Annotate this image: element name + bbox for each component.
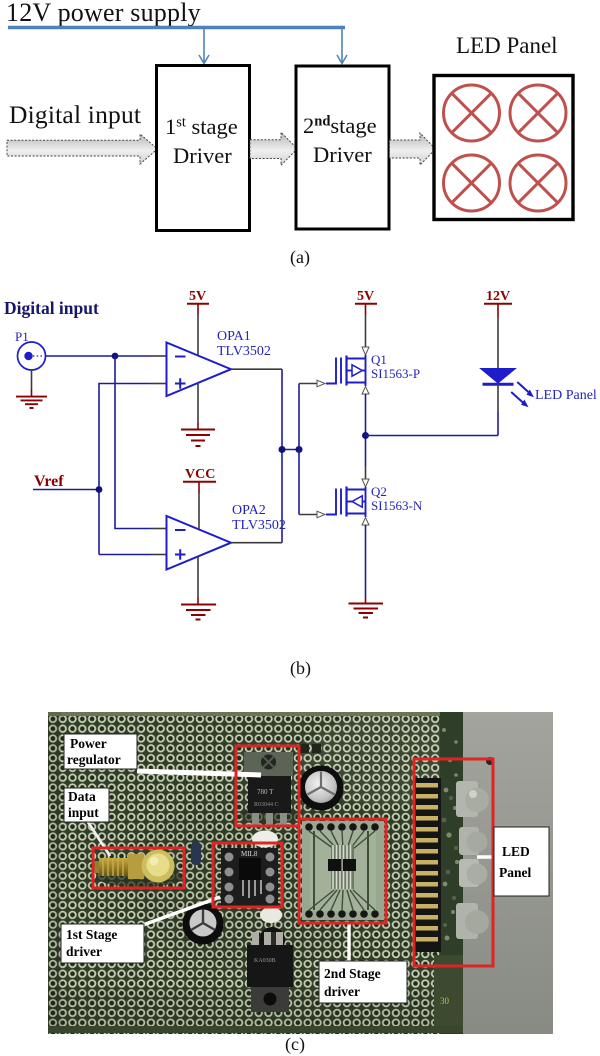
wire supply drop to 1st stage driver <box>203 29 205 63</box>
svg-text:KA030B: KA030B <box>254 958 276 964</box>
ground under P1 <box>16 370 47 408</box>
svg-text:Q2: Q2 <box>371 484 387 499</box>
svg-text:Digital input: Digital input <box>9 100 141 129</box>
leader line: 2nd stage driver <box>347 924 350 962</box>
svg-text:TLV3502: TLV3502 <box>232 518 286 533</box>
LED D2 <box>456 781 489 817</box>
svg-text:Power: Power <box>70 736 107 751</box>
op-amp OPA2 TLV3502 <box>167 503 286 570</box>
svg-text:regulator: regulator <box>67 752 121 767</box>
ground under Q2 <box>349 604 384 618</box>
svg-text:P1: P1 <box>15 329 29 344</box>
capacitor C2 (black, metal Y top) <box>183 904 224 945</box>
arrow digital input (gray block arrow) <box>7 134 158 164</box>
pin arrow gate Q2 <box>317 511 325 518</box>
solder pad above 1st stage DIP <box>252 831 278 848</box>
lamp symbol top-right <box>510 85 566 141</box>
label box: Data input <box>64 788 109 822</box>
svg-text:(a): (a) <box>290 247 310 268</box>
pin arrow drain Q1 <box>362 387 369 395</box>
ground under OPA1 <box>181 383 215 446</box>
svg-text:780 T: 780 T <box>257 788 274 796</box>
annotation box: data input connector <box>93 848 184 888</box>
label box: 2nd Stage driver <box>319 961 407 1003</box>
junction node OUT <box>362 432 369 439</box>
svg-text:MIL8: MIL8 <box>241 850 258 858</box>
svg-text:Panel: Panel <box>499 865 531 880</box>
svg-text:5V: 5V <box>189 289 206 304</box>
LED D5 <box>456 903 489 939</box>
wire node G vertical (OPA1 out to OPA2 out) <box>281 369 283 543</box>
svg-text:Driver: Driver <box>313 142 372 167</box>
transistor Q2 SI1563-N <box>326 487 366 518</box>
leader line: 1st stage driver <box>143 897 220 925</box>
svg-text:2nd Stage: 2nd Stage <box>324 966 381 981</box>
svg-text:1st Stage: 1st Stage <box>66 927 117 942</box>
pin arrow source Q1 <box>362 347 369 355</box>
junction node Vref <box>96 486 103 493</box>
power 5V (OPA1) <box>187 289 209 355</box>
power regulator U3 (7805) <box>240 752 300 825</box>
svg-text:driver: driver <box>66 944 102 959</box>
leader line: data input <box>88 822 110 856</box>
connector J2 LED panel header pins <box>414 778 441 952</box>
resistor R1 (small blue) <box>191 842 201 865</box>
annotation box: power regulator <box>236 746 299 826</box>
connector J1 data input (SMA) <box>92 850 184 888</box>
svg-text:Driver: Driver <box>173 143 232 168</box>
wire 12V supply bus (blue) <box>8 26 345 29</box>
pin arrow gate Q1 <box>317 380 325 387</box>
photo background PCB <box>48 712 553 1034</box>
wire LED cathode down to node OUT <box>497 384 499 412</box>
svg-text:Q1: Q1 <box>371 352 387 367</box>
svg-text:input: input <box>68 805 99 820</box>
svg-text:LED: LED <box>502 844 530 859</box>
gray photo background right <box>462 712 553 1034</box>
LED D3 <box>459 827 488 855</box>
svg-text:LED Panel: LED Panel <box>535 388 597 403</box>
solder pad below DIP <box>260 907 282 923</box>
board bottom edge <box>48 1026 462 1033</box>
label box: LED Panel <box>494 827 549 896</box>
wire node OUT to LED <box>366 435 499 437</box>
block 1st stage Driver <box>157 66 250 231</box>
svg-text:2ndstage: 2ndstage <box>303 113 377 138</box>
small jumper parts above 2nd stage <box>299 744 309 753</box>
LED light emission arrows <box>511 382 534 407</box>
annotation box: 1st stage driver <box>213 843 282 907</box>
lamp symbol bottom-right <box>510 155 566 211</box>
svg-text:SI1563-P: SI1563-P <box>371 366 420 381</box>
svg-text:LED Panel: LED Panel <box>456 33 558 58</box>
label box: Power regulator <box>64 734 137 769</box>
pin arrow source Q2 <box>362 518 369 526</box>
power VCC (OPA2) <box>183 467 216 529</box>
LED panel board edge strip <box>440 712 463 1034</box>
diode LED D1 <box>481 369 516 385</box>
power 12V (LED) <box>484 289 512 368</box>
leader line: power regulator <box>137 771 261 775</box>
IC U1 1st stage driver (8-pin DIP) <box>221 848 278 906</box>
wire node G to gate Q1 and gate Q2 <box>298 384 300 515</box>
mounting hole <box>486 757 494 765</box>
svg-text:OPA1: OPA1 <box>217 329 251 344</box>
ground under OPA2 <box>181 556 216 620</box>
svg-text:(b): (b) <box>290 658 311 679</box>
annotation box: 2nd stage driver <box>299 819 386 923</box>
lamp symbol top-left <box>444 85 500 141</box>
wire P1 to node IN <box>46 355 152 357</box>
capacitor C3 (small black) <box>259 927 285 953</box>
svg-text:VCC: VCC <box>185 467 215 482</box>
transistor Q1 SI1563-P <box>326 355 366 386</box>
svg-text:(c): (c) <box>285 1034 305 1055</box>
IC U2 2nd stage driver (bare die) <box>302 821 384 920</box>
svg-text:TLV3502: TLV3502 <box>217 344 271 359</box>
svg-text:5V: 5V <box>357 289 374 304</box>
junction node IN <box>112 353 119 360</box>
wire Q2 source to ground <box>365 525 367 597</box>
lamp symbol bottom-left <box>444 155 500 211</box>
wire node IN down to OPA2 inverting input <box>115 356 151 529</box>
pin arrow drain Q2 <box>362 479 369 487</box>
svg-text:1st stage: 1st stage <box>165 114 238 139</box>
svg-text:SI1563-N: SI1563-N <box>371 498 423 513</box>
svg-text:30: 30 <box>440 996 450 1006</box>
wire node G link <box>282 449 299 451</box>
junction node G2 <box>296 446 303 453</box>
svg-text:driver: driver <box>324 984 360 999</box>
wire supply drop to 2nd stage driver <box>341 29 343 63</box>
svg-text:Data: Data <box>68 789 96 804</box>
LED D4 <box>459 859 488 887</box>
wire Vref <box>33 489 99 491</box>
wire Vref rail to OPA2 non-inverting input <box>99 554 151 556</box>
capacitor C1 (electrolytic, silver top) <box>299 766 344 811</box>
svg-text:Vref: Vref <box>34 473 64 490</box>
label box: 1st Stage driver <box>61 924 144 963</box>
op-amp OPA1 TLV3502 <box>167 329 271 396</box>
annotation box: LED panel <box>414 759 493 966</box>
regulator U4 (bottom, TO-252) <box>247 932 293 1012</box>
arrow stage2 to LED panel (gray block arrow) <box>390 133 436 165</box>
wire Q1 drain to node OUT <box>365 394 367 466</box>
svg-text:12V: 12V <box>486 289 510 304</box>
svg-text:R03044 C: R03044 C <box>254 802 279 808</box>
leader line: LED panel <box>477 855 495 858</box>
arrow stage1 to stage2 (gray block arrow) <box>250 132 297 165</box>
junction node G1 <box>279 446 286 453</box>
svg-text:12V power supply: 12V power supply <box>6 0 201 27</box>
block LED panel <box>434 76 573 220</box>
wire OPA2 output to node G <box>231 542 282 544</box>
power 5V (Q1) <box>355 289 377 347</box>
wire Vref rail to OPA1 non-inverting input <box>99 384 151 555</box>
connector P1 <box>15 329 46 370</box>
svg-text:Digital input: Digital input <box>4 298 99 318</box>
svg-text:OPA2: OPA2 <box>232 503 266 518</box>
wire OPA1 output to node G <box>231 368 282 370</box>
block 2nd stage Driver <box>296 66 389 229</box>
